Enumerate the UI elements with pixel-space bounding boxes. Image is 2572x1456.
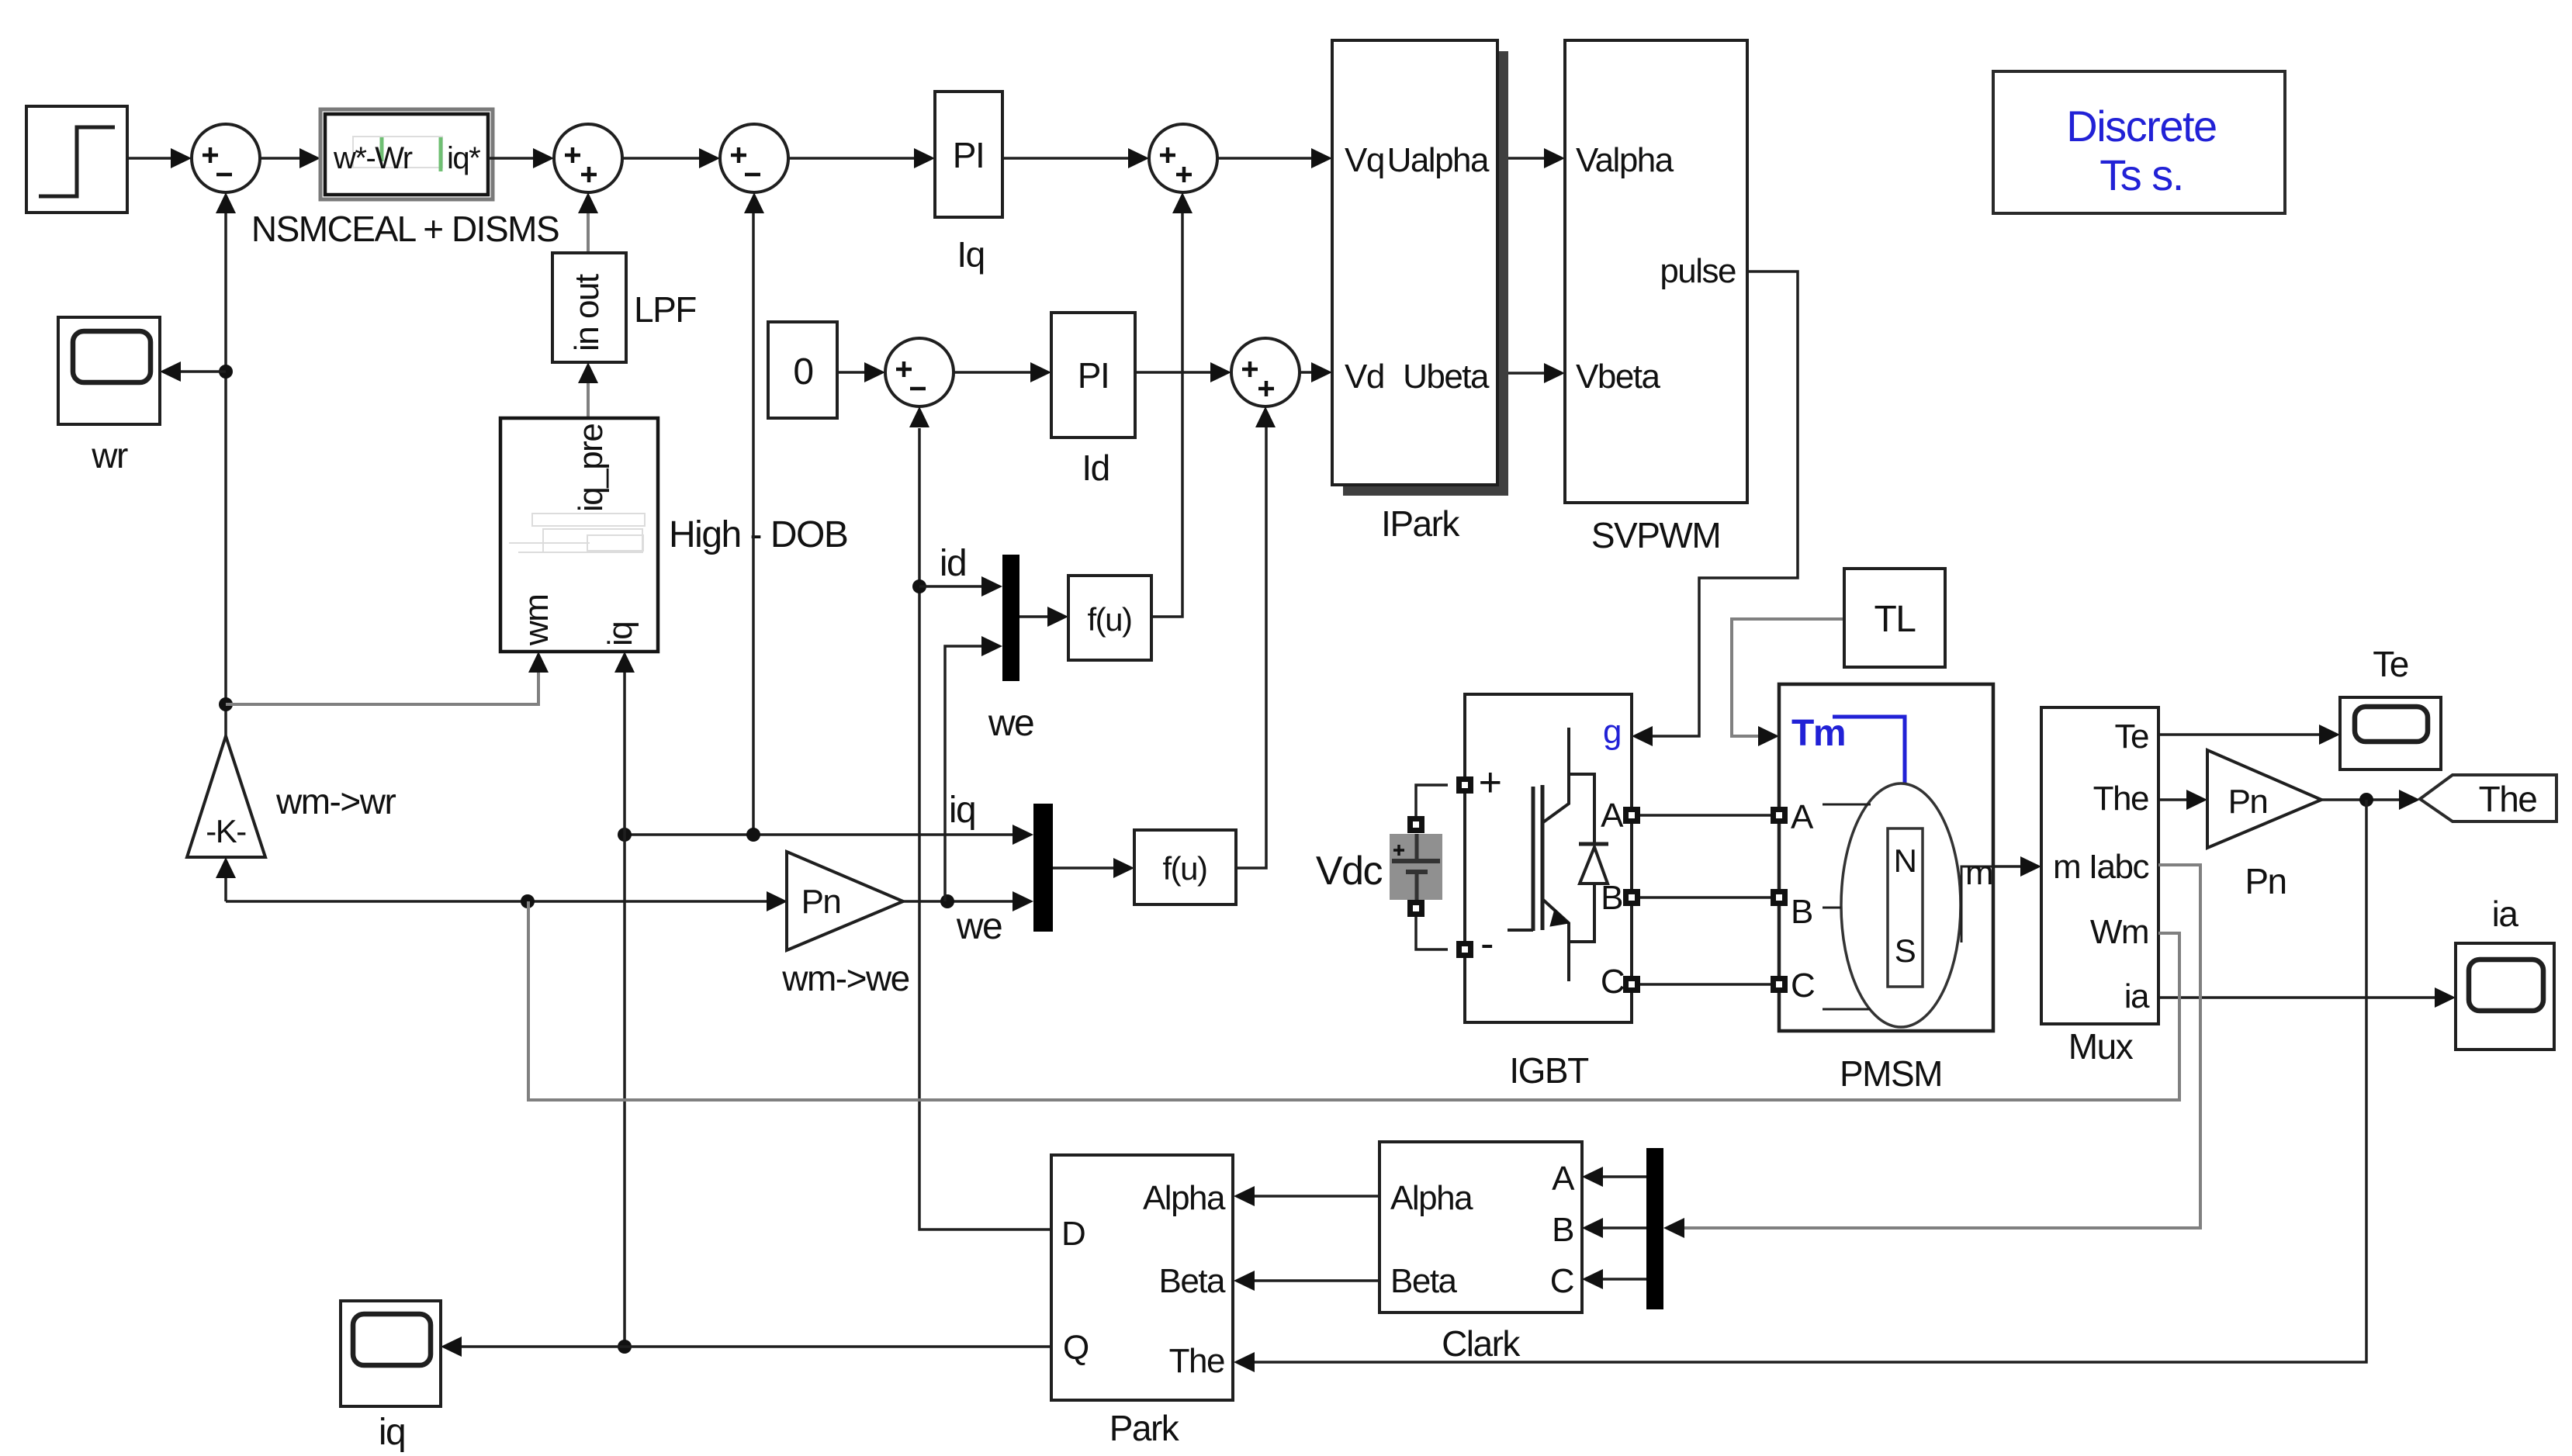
svg-text:C: C <box>1791 967 1815 1005</box>
svg-text:in out: in out <box>568 274 606 351</box>
svg-text:C: C <box>1550 1262 1574 1300</box>
svg-text:-K-: -K- <box>206 813 246 849</box>
svg-text:Mux: Mux <box>2068 1026 2134 1067</box>
svg-text:The: The <box>2093 780 2148 818</box>
svg-text:iq: iq <box>949 790 975 831</box>
svg-text:C: C <box>1601 963 1625 1001</box>
svg-text:wm->we: wm->we <box>781 958 909 998</box>
svg-text:Clark: Clark <box>1442 1323 1521 1364</box>
svg-text:pulse: pulse <box>1660 252 1736 290</box>
svg-text:f(u): f(u) <box>1163 850 1207 887</box>
svg-text:Te: Te <box>2115 718 2149 756</box>
svg-text:PI: PI <box>1078 355 1109 396</box>
svg-text:LPF: LPF <box>634 289 696 330</box>
svg-text:Wm: Wm <box>2090 913 2148 951</box>
svg-text:SVPWM: SVPWM <box>1591 515 1720 555</box>
svg-text:-: - <box>1480 922 1493 967</box>
svg-text:Id: Id <box>1082 448 1109 488</box>
svg-text:N: N <box>1894 842 1916 879</box>
svg-text:iq_pre: iq_pre <box>572 424 610 512</box>
svg-text:High - DOB: High - DOB <box>669 514 847 555</box>
svg-text:The: The <box>2479 779 2537 819</box>
svg-text:D: D <box>1061 1215 1085 1253</box>
svg-text:we: we <box>956 906 1002 947</box>
svg-text:w*-Wr: w*-Wr <box>333 141 413 175</box>
svg-text:NSMCEAL + DISMS: NSMCEAL + DISMS <box>251 209 559 249</box>
svg-text:A: A <box>1601 797 1624 835</box>
svg-text:m: m <box>2053 848 2080 886</box>
svg-text:B: B <box>1552 1211 1573 1249</box>
svg-text:Ubeta: Ubeta <box>1403 358 1490 396</box>
svg-text:Vd: Vd <box>1345 358 1384 396</box>
svg-text:The: The <box>1169 1342 1224 1380</box>
svg-text:A: A <box>1552 1160 1575 1198</box>
svg-text:Discrete: Discrete <box>2066 102 2216 150</box>
svg-text:Alpha: Alpha <box>1143 1179 1226 1217</box>
svg-text:A: A <box>1791 798 1814 836</box>
svg-text:S: S <box>1895 932 1916 969</box>
svg-text:Alpha: Alpha <box>1390 1179 1473 1217</box>
svg-text:Vq: Vq <box>1345 141 1384 179</box>
svg-text:Pn: Pn <box>2228 783 2268 821</box>
svg-text:Tm: Tm <box>1791 713 1845 754</box>
svg-text:Te: Te <box>2373 644 2408 684</box>
svg-text:wr: wr <box>91 435 128 476</box>
svg-text:iq: iq <box>601 622 639 646</box>
svg-text:wm->wr: wm->wr <box>275 781 396 821</box>
svg-text:Iabc: Iabc <box>2089 848 2149 886</box>
svg-text:we: we <box>988 703 1033 744</box>
svg-text:Vdc: Vdc <box>1316 849 1383 894</box>
svg-text:B: B <box>1791 893 1812 931</box>
svg-text:Park: Park <box>1109 1408 1180 1448</box>
svg-text:PMSM: PMSM <box>1840 1053 1942 1094</box>
svg-text:f(u): f(u) <box>1088 601 1132 638</box>
svg-text:PI: PI <box>953 135 984 175</box>
svg-text:Vbeta: Vbeta <box>1576 358 1661 396</box>
svg-text:ia: ia <box>2124 977 2150 1015</box>
svg-text:Q: Q <box>1063 1329 1089 1367</box>
svg-text:Iq: Iq <box>957 234 984 275</box>
svg-text:iq*: iq* <box>447 141 480 175</box>
svg-text:Ts s.: Ts s. <box>2099 150 2183 199</box>
svg-text:Beta: Beta <box>1158 1262 1226 1300</box>
svg-text:id: id <box>940 543 966 584</box>
svg-text:Pn: Pn <box>801 883 841 921</box>
svg-text:iq: iq <box>379 1412 405 1453</box>
svg-text:IGBT: IGBT <box>1509 1050 1589 1091</box>
svg-text:wm: wm <box>518 595 556 646</box>
svg-text:m: m <box>1965 854 1992 892</box>
svg-text:0: 0 <box>793 351 812 393</box>
svg-text:IPark: IPark <box>1381 503 1460 544</box>
svg-text:+: + <box>1479 760 1501 805</box>
svg-text:Beta: Beta <box>1390 1262 1458 1300</box>
svg-text:Valpha: Valpha <box>1576 141 1674 179</box>
svg-text:g: g <box>1603 713 1621 751</box>
svg-text:ia: ia <box>2492 894 2519 934</box>
svg-text:TL: TL <box>1874 599 1916 640</box>
svg-text:Pn: Pn <box>2245 861 2286 901</box>
svg-text:Ualpha: Ualpha <box>1387 141 1490 179</box>
